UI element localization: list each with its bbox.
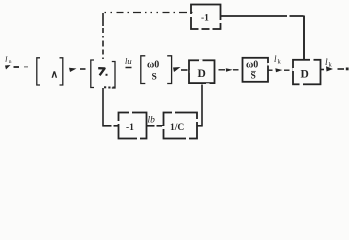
svg-text:S: S <box>152 73 157 83</box>
svg-text:1/C: 1/C <box>170 123 184 133</box>
svg-text:lb: lb <box>148 116 156 126</box>
svg-text:n: n <box>9 59 12 65</box>
svg-text:ω0: ω0 <box>147 60 159 71</box>
svg-text:D: D <box>198 68 206 80</box>
svg-text:∧: ∧ <box>51 70 59 81</box>
svg-text:lu: lu <box>125 56 132 66</box>
svg-text:D: D <box>301 69 309 81</box>
svg-text:-1: -1 <box>126 123 134 133</box>
svg-text:S̅: S̅ <box>250 70 256 81</box>
svg-text:I: I <box>4 55 8 64</box>
svg-text:-1: -1 <box>201 14 209 24</box>
svg-text:ω0: ω0 <box>246 60 258 71</box>
